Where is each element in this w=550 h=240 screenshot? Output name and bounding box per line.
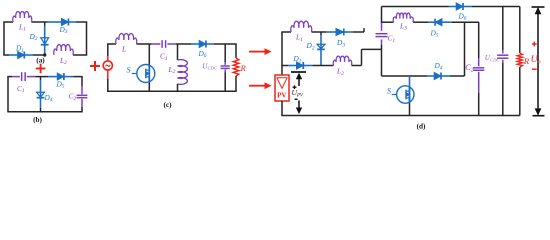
wire (a) right edge <box>86 22 88 55</box>
wire (b) left edge <box>7 77 9 112</box>
wire (c) left edge <box>107 44 109 56</box>
svg-text:(b): (b) <box>33 116 42 124</box>
junction dot (a) D2-bottom <box>43 53 46 56</box>
uo plus <box>532 43 537 45</box>
capacitor UCDC (d) <box>497 54 508 56</box>
red plus between (a) and (b) <box>36 68 46 70</box>
diode D1 (d) <box>288 65 297 67</box>
svg-text:R: R <box>523 56 530 66</box>
wire PV to bottom <box>281 101 283 116</box>
uo top tick <box>532 6 545 8</box>
red plus before (c) <box>90 65 100 67</box>
inductor L1 (a) <box>13 12 32 22</box>
wire (d) C2 column <box>478 22 480 58</box>
capacitor C1 (b) <box>21 72 23 81</box>
wire (b) purple leads C1 <box>12 76 20 78</box>
mosfet S (c) <box>148 44 150 91</box>
circuit (a) outer wires / left edge <box>3 22 5 55</box>
upv minus <box>295 98 298 100</box>
upv plus <box>293 86 297 88</box>
svg-text:PV: PV <box>277 92 286 100</box>
diode D6 (c) <box>191 43 199 45</box>
wire (d) left edge <box>281 32 283 75</box>
capacitor C2 (d) <box>473 67 484 69</box>
diode D4 (b) vertical <box>40 77 42 80</box>
uo up arrowhead <box>535 8 540 14</box>
svg-text:(a): (a) <box>36 57 45 65</box>
inductor L3 (d) <box>393 13 413 22</box>
wire (c) C1 purple leads <box>152 43 161 45</box>
inductor L2 (d) <box>333 56 351 65</box>
source circle (c) <box>103 61 112 70</box>
diode D2 (a) vertical <box>44 22 46 26</box>
diode D1 (a) <box>9 54 18 56</box>
wire (d) cell top rail <box>281 31 291 33</box>
uo double arrow line <box>537 8 539 114</box>
svg-text:(c): (c) <box>164 101 173 109</box>
capacitor C1 (c) <box>161 40 163 48</box>
diode D2 (d) vertical <box>320 32 322 35</box>
capacitor C1 (d) <box>376 33 388 35</box>
wire (b) bottom rail <box>7 111 82 113</box>
wire (d) vertical A <box>464 22 466 76</box>
diode D6 (d) <box>449 6 457 8</box>
red arrow bottom <box>249 85 265 87</box>
inductor L2 (c) vertical <box>177 44 179 60</box>
capacitor UC2C branch (c) <box>224 44 226 62</box>
wire (d) cell bottom rail <box>281 65 288 67</box>
upv down arrow <box>298 101 300 109</box>
diode D4 (d) <box>427 75 434 77</box>
wire (d) D4 row <box>382 75 428 77</box>
upv tick bar <box>291 71 306 73</box>
wire (d) cell output link <box>361 49 363 65</box>
uo down arrowhead <box>535 109 540 115</box>
diode D3 (d) <box>326 31 336 33</box>
inductor L (c) <box>116 34 137 44</box>
inductor L2 (a) <box>54 45 73 55</box>
wire (b) top rail <box>7 76 12 78</box>
wire (d) top <box>382 6 449 8</box>
resistor R (d) right edge <box>519 7 521 54</box>
capacitor C2 (b) <box>77 94 88 96</box>
red arrow top <box>249 51 265 53</box>
wire (c) bottom <box>107 90 237 92</box>
pv panel PV <box>275 75 289 101</box>
wire (a) top rail <box>3 21 13 23</box>
wire (d) bottom <box>281 115 520 117</box>
uo minus <box>532 68 537 70</box>
diode D3 (a) <box>48 21 62 23</box>
wire2 (d) <box>382 21 394 23</box>
diode D5 (b) <box>48 76 57 78</box>
uo bottom tick <box>533 115 545 117</box>
svg-text:(d): (d) <box>417 122 426 130</box>
resistor R (c) right edge <box>235 44 237 58</box>
svg-text:R: R <box>240 63 247 73</box>
mosfet S (d) <box>409 76 411 87</box>
svg-text:S: S <box>387 87 391 96</box>
wire (c) top <box>107 43 116 45</box>
svg-text:L: L <box>121 45 126 54</box>
diode D5 (d) points left <box>428 21 435 23</box>
upv up arrow <box>298 79 300 86</box>
wire (d) C1 column <box>381 7 383 24</box>
wire (b) right edge <box>81 77 83 86</box>
inductor L1 (d) <box>291 21 312 32</box>
wire (a) bottom rail <box>3 54 9 56</box>
wire (d) UCDC column <box>502 7 504 51</box>
svg-text:S: S <box>127 65 131 74</box>
